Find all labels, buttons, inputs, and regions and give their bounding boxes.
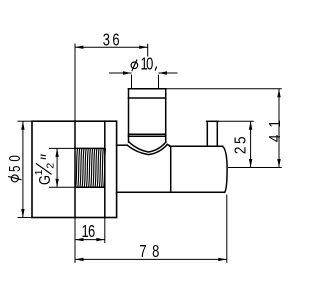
dim G1/2 line [56, 148, 58, 187]
arrowhead dim 36 left [75, 46, 84, 49]
16 right ext [104, 218, 106, 244]
svg-text:3: 3 [103, 31, 110, 51]
outlet tube top edge [207, 120, 218, 122]
comma after 10 [155, 66, 156, 70]
text 25 rotated [232, 136, 249, 154]
handle bottom double line B [129, 135, 166, 137]
78 right ext [226, 195, 228, 263]
handle bottom double line A [129, 133, 166, 135]
handle right edge [165, 89, 167, 142]
svg-text:5: 5 [232, 136, 249, 144]
41 top ext [166, 88, 282, 90]
svg-text:2: 2 [45, 163, 57, 169]
dim 36 line [75, 46, 148, 48]
text 36 [103, 31, 120, 51]
dim phi50 line [22, 121, 24, 217]
arrowhead dim 41 top [277, 89, 280, 98]
flange inner edge line [74, 121, 76, 217]
outlet tube left edge [206, 121, 208, 146]
arrowhead dim phi10 left [123, 71, 132, 74]
text phi50 rotated: symbol drawn in screen space [11, 175, 18, 182]
dome inner arc [129, 142, 166, 152]
dim phi10 lines [109, 72, 132, 74]
arrowhead dim phi10 right [159, 71, 168, 74]
handle left edge [128, 89, 130, 142]
ext line right of 36 [147, 44, 149, 57]
arrowhead dim 16 right [96, 238, 105, 241]
arrowhead dim G1/2 bottom [55, 179, 58, 188]
thread block bottom edge [75, 186, 105, 188]
arrowhead dim phi50 top [21, 121, 24, 130]
svg-text:2: 2 [232, 147, 249, 155]
25 top ext [218, 120, 254, 122]
body top edge [170, 145, 223, 147]
svg-text:0: 0 [146, 55, 153, 75]
svg-text:1: 1 [267, 120, 284, 128]
phi10 ext lines [131, 75, 133, 89]
dome outer arc [127, 144, 167, 154]
dim 78 line [75, 258, 227, 260]
arrowhead dim G1/2 top [55, 148, 58, 157]
text 16 [82, 222, 96, 242]
svg-text:5: 5 [5, 165, 23, 172]
body end cap arc [223, 146, 228, 192]
bonnet stub left [117, 144, 128, 146]
phi50 ext ticks [18, 120, 33, 122]
svg-text:6: 6 [112, 31, 119, 51]
thread end edge line [104, 121, 106, 217]
dim 41 line [278, 89, 280, 168]
text G1/2 rotated [33, 155, 57, 185]
body joint line [170, 146, 172, 192]
flange plate outline [32, 121, 117, 217]
text phi10 [131, 62, 138, 69]
body top diag from dome [167, 144, 170, 146]
svg-text:7: 7 [139, 242, 146, 262]
handle cap line [129, 97, 166, 99]
arrowhead dim 41 bottom [277, 159, 280, 168]
svg-text:0: 0 [5, 155, 23, 162]
arrowhead dim 25 bottom [249, 159, 252, 168]
dim 16 line [75, 239, 105, 241]
arrowhead dim 36 right [139, 46, 148, 49]
text 41 rotated [267, 120, 284, 142]
arrowhead dim 16 left [75, 238, 84, 241]
svg-text:8: 8 [152, 242, 159, 262]
thread hatching G1/2 [76, 148, 106, 187]
body bottom edge [117, 191, 225, 193]
dim 25 line [250, 121, 252, 167]
axis ext line [228, 167, 282, 169]
arrowhead dim phi50 bottom [21, 209, 24, 218]
text 78 [139, 242, 159, 262]
handle top edge [129, 88, 166, 90]
thread block top edge [75, 147, 105, 149]
arrowhead dim 78 left [75, 258, 84, 261]
svg-text:G: G [37, 175, 55, 185]
svg-text:1: 1 [33, 169, 45, 175]
ext line left x75 (36/16/78 shared + thread start edge overdrawn) [74, 44, 76, 122]
outlet tube right edge [216, 121, 218, 146]
svg-text:6: 6 [88, 222, 95, 242]
G ext ticks [49, 147, 75, 149]
arrowhead dim 25 top [249, 121, 252, 130]
arrowhead dim 78 right [218, 258, 227, 261]
svg-text:4: 4 [267, 135, 284, 143]
